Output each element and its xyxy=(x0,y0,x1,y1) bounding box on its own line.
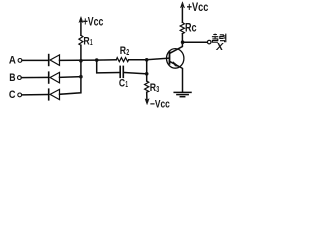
svg-text:R: R xyxy=(120,45,126,57)
svg-text:X: X xyxy=(215,41,224,53)
+Vcc arrow (left) xyxy=(79,17,83,23)
wire right bar to transistor base xyxy=(147,58,169,60)
-Vcc arrow xyxy=(145,99,149,105)
node C input terminal xyxy=(18,93,22,97)
svg-text:C: C xyxy=(119,77,125,89)
wire B terminal to diode D2 xyxy=(21,76,48,78)
node A input terminal xyxy=(18,59,22,63)
junction dot RC block right top xyxy=(145,58,149,62)
wire diode D2 to junction column xyxy=(60,76,81,79)
wire R3 to -Vcc arrow xyxy=(146,92,148,100)
junction dot collector node xyxy=(181,40,185,44)
svg-text:B: B xyxy=(9,72,15,84)
svg-text:+Vcc: +Vcc xyxy=(83,15,104,29)
junction dot node line / R1 column xyxy=(79,59,83,63)
wire A terminal to diode D1 xyxy=(22,59,49,61)
diode D1 xyxy=(49,55,60,66)
wire RC right bar down to R3 xyxy=(146,60,148,81)
junction dot RC block left xyxy=(95,58,99,62)
wire junction column rows A-B xyxy=(80,61,82,77)
svg-text:A: A xyxy=(9,54,16,66)
resistor Rc xyxy=(180,8,184,43)
transistor Q1 emitter arrow xyxy=(173,62,179,67)
svg-text:3: 3 xyxy=(156,84,159,94)
svg-text:R: R xyxy=(83,35,89,47)
wire C1 branch left leg xyxy=(97,60,120,73)
node B input terminal xyxy=(18,76,22,80)
transistor Q1 base bar xyxy=(169,52,171,64)
wire node line to R2 xyxy=(97,59,117,61)
wire R2 to right bar xyxy=(129,59,147,61)
output terminal X xyxy=(207,40,211,44)
transistor Q1 circle xyxy=(167,49,184,69)
svg-text:Rc: Rc xyxy=(185,21,197,35)
wire diode D3 to junction column xyxy=(60,77,81,95)
ground xyxy=(174,92,191,96)
wire C1 to right bar xyxy=(124,73,147,74)
capacitor C1 xyxy=(120,66,123,77)
diode D3 xyxy=(49,89,60,100)
transistor Q1 emitter lead xyxy=(170,61,183,91)
resistor R2 xyxy=(116,58,128,62)
resistor R3 xyxy=(145,81,149,92)
svg-text:−Vcc: −Vcc xyxy=(150,99,170,111)
wire diode D1 to node line xyxy=(60,59,97,61)
wire C terminal to diode D3 xyxy=(22,94,49,96)
resistor R1 xyxy=(79,21,83,61)
svg-text:1: 1 xyxy=(125,79,128,89)
wire collector node to output terminal xyxy=(183,41,208,43)
transistor Q1 collector lead xyxy=(170,42,183,53)
svg-text:C: C xyxy=(9,89,16,101)
junction dot row B xyxy=(79,75,83,79)
label output (Korean chulryeok) xyxy=(212,34,226,43)
+Vcc arrow (right) xyxy=(180,2,184,8)
svg-text:1: 1 xyxy=(90,37,93,47)
junction dot RC block right bottom xyxy=(145,72,149,76)
svg-text:2: 2 xyxy=(126,47,129,57)
svg-text:+Vcc: +Vcc xyxy=(187,0,209,14)
diode D2 xyxy=(49,72,60,83)
svg-text:R: R xyxy=(150,82,156,94)
